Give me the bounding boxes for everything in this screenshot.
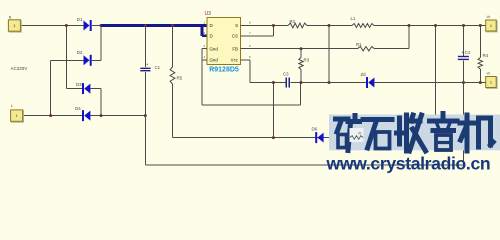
svg-text:D: D bbox=[210, 34, 213, 39]
svg-text:C1: C1 bbox=[155, 65, 161, 70]
svg-text:D3: D3 bbox=[76, 82, 82, 87]
svg-text:1: 1 bbox=[16, 114, 18, 118]
svg-text:Zd: Zd bbox=[361, 72, 367, 77]
svg-text:C3: C3 bbox=[283, 72, 289, 77]
svg-text:D4: D4 bbox=[75, 106, 81, 111]
svg-text:Vo: Vo bbox=[487, 15, 491, 19]
svg-text:Gnd: Gnd bbox=[210, 58, 219, 63]
svg-text:D2: D2 bbox=[77, 50, 83, 55]
svg-text:1: 1 bbox=[490, 81, 492, 85]
svg-text:R1: R1 bbox=[356, 42, 362, 47]
svg-text:R2: R2 bbox=[290, 19, 296, 24]
svg-text:R4: R4 bbox=[483, 53, 489, 58]
svg-text:Vcc: Vcc bbox=[231, 58, 239, 63]
svg-text:Gnd: Gnd bbox=[210, 46, 219, 51]
svg-text:D: D bbox=[210, 23, 213, 28]
svg-text:CS: CS bbox=[232, 34, 238, 39]
svg-text:www.crystalradio.cn: www.crystalradio.cn bbox=[326, 154, 491, 174]
svg-text:AC220V: AC220V bbox=[11, 66, 28, 71]
svg-text:Vo: Vo bbox=[487, 72, 491, 76]
svg-text:L: L bbox=[11, 104, 13, 108]
svg-text:U3: U3 bbox=[205, 11, 212, 17]
svg-text:+ C4: + C4 bbox=[461, 50, 471, 55]
svg-text:1: 1 bbox=[13, 24, 15, 28]
svg-text:R5: R5 bbox=[177, 76, 183, 81]
svg-text:D6: D6 bbox=[312, 127, 318, 132]
svg-text:FB: FB bbox=[232, 46, 238, 51]
svg-text:L1: L1 bbox=[351, 16, 356, 21]
svg-text:N: N bbox=[9, 15, 12, 19]
svg-text:R3: R3 bbox=[304, 58, 310, 63]
svg-text:R9128D5: R9128D5 bbox=[209, 67, 239, 74]
svg-text:D1: D1 bbox=[77, 17, 83, 22]
svg-text:S: S bbox=[235, 23, 238, 28]
svg-text:1: 1 bbox=[490, 24, 492, 28]
